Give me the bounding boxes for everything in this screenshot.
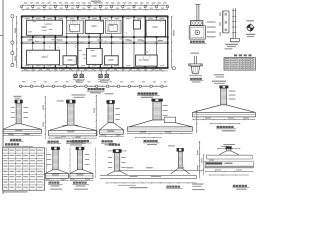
- pier footing at x=70.8: [49, 125, 68, 130]
- detail J-2 top notes: [72, 94, 86, 95]
- detail D4 caption: [246, 34, 255, 35]
- detail G dims below: [205, 170, 253, 172]
- plan column grid verticals: [21, 16, 23, 69]
- detail J-1 title: [10, 139, 13, 141]
- detail K-3 title: [109, 144, 112, 146]
- plan wall band dimension smudges: [25, 18, 30, 19]
- plan title text 1: [88, 88, 91, 90]
- detail G dim line at cap: [217, 148, 240, 150]
- strip footing dim line: [106, 182, 197, 184]
- detail J-4 right vertical dim: [196, 110, 198, 133]
- detail D4 survey symbol circle: [247, 25, 253, 31]
- detail J-5 pier shaft: [221, 88, 227, 105]
- pile cap mini-detail cluster 1: [74, 74, 77, 77]
- plan rooms top row: [27, 20, 63, 35]
- pier dim below x=110.7: [99, 135, 123, 137]
- detail J-4 title: [144, 140, 147, 142]
- plan left axis bubbles and line: [11, 16, 13, 66]
- plan top dimension line 1: [22, 4, 168, 6]
- detail J-1 top notes: [13, 96, 21, 97]
- pier shaft at x=110.7: [108, 104, 114, 123]
- detail K-3 cap dim line: [109, 150, 127, 152]
- detail D3 title: [190, 78, 193, 80]
- detail J-1 side ticks: [23, 107, 28, 108]
- detail K-4 right vertical dim: [199, 141, 201, 178]
- detail K-2 title: [72, 140, 75, 142]
- detail D1 leader notes: [207, 22, 216, 23]
- pier cap at x=70.8: [66, 100, 75, 104]
- detail D3 pile top text: [191, 53, 200, 54]
- detail G left vertical dim: [203, 155, 205, 176]
- foundation beam pile circles: [20, 85, 22, 87]
- foundation table grid: [3, 148, 45, 190]
- detail D1 crossbeam hatched: [191, 21, 203, 26]
- note under table: [4, 191, 28, 192]
- detail J-4 top notes: [142, 95, 154, 96]
- pier footing at x=55.5: [45, 170, 52, 174]
- plan right dimension line: [171, 16, 173, 68]
- long strip footing section lines: [118, 170, 204, 172]
- detail J-5 footing slopes: [193, 105, 221, 113]
- pier cap at x=18.7: [15, 100, 23, 104]
- detail J-4 pier shaft: [153, 102, 161, 120]
- detail D2 base plate: [230, 38, 239, 41]
- plan sheet top-center label: [91, 1, 101, 2]
- detail G footing slab: [205, 165, 253, 167]
- detail D2 dim ticks: [220, 12, 221, 16]
- foundation beam axis numbers: [22, 81, 25, 82]
- foundation table title: [5, 143, 8, 145]
- pier dim below x=70.8: [49, 137, 97, 139]
- plan right axis bubble: [172, 67, 175, 70]
- plan columns (black squares): [21, 16, 23, 18]
- strip footing labels: [126, 167, 133, 168]
- pier cap at x=80.0: [76, 147, 85, 150]
- detail K-3 pier: [113, 149, 122, 153]
- detail K-2 caption: [73, 182, 75, 184]
- detail J-1/J-2 vertical dim: [44, 96, 46, 139]
- detail D3 cross beam: [189, 64, 203, 66]
- plan bottom dimension line: [21, 70, 167, 72]
- pier shaft at x=80.0: [77, 150, 82, 170]
- detail G pier flare: [219, 151, 226, 155]
- pier shaft at x=18.7: [16, 103, 21, 124]
- plan top wall thick line: [21, 16, 167, 18]
- plan room annotation smudges: [41, 26, 46, 27]
- pier footing at x=18.7: [3, 124, 16, 130]
- sheet left border: [2, 0, 4, 194]
- detail J-2 / K-2 title: [67, 140, 70, 142]
- pier dim below x=18.7: [3, 135, 41, 137]
- detail G pier shaft: [226, 149, 231, 151]
- pier dim below x=55.5: [45, 180, 68, 182]
- detail D2 caption: [225, 44, 238, 45]
- plan top dimension numbers: [24, 2, 27, 3]
- detail J-3 title: [102, 140, 105, 142]
- detail J-4 shaft side notes: [163, 105, 168, 106]
- pier cap at x=55.5: [51, 147, 60, 150]
- detail D3 dim: [190, 75, 202, 77]
- pile schedule table cell text: [225, 58, 230, 59]
- detail J-5 dimension line: [193, 119, 256, 121]
- detail J-3 top notes: [105, 93, 114, 94]
- detail J-4 dims: [127, 133, 192, 135]
- detail J-4 right step: [164, 117, 175, 123]
- pier footing at x=80.0: [70, 170, 77, 174]
- detail J-2/J-3 vertical dim: [95, 95, 97, 136]
- detail D2 column box: [223, 11, 229, 33]
- detail D1 anchor post: [196, 5, 198, 21]
- detail J-5 shaft side notes: [229, 91, 236, 92]
- plan left dimension line: [16, 16, 18, 68]
- detail D2 tall bolt post: [232, 8, 234, 38]
- detail G title: [233, 185, 236, 187]
- detail J-4 footing: [129, 120, 153, 127]
- pier shaft at x=55.5: [53, 150, 58, 170]
- pile schedule table grid: [224, 58, 255, 71]
- detail J-5 title: [217, 126, 220, 128]
- detail K-4 top notes: [168, 145, 175, 146]
- detail J-4 pier cap: [152, 99, 163, 102]
- detail K-1 title: [48, 141, 51, 143]
- plan top axis bubbles: [20, 5, 22, 7]
- detail J-5 pier cap: [219, 86, 228, 89]
- detail K-1 caption: [49, 182, 51, 184]
- detail J-2 footing ledge: [62, 124, 78, 126]
- detail D1 base plate plan: [189, 26, 205, 39]
- plan corridor lines: [21, 35, 167, 37]
- detail J-5 pier top notes: [214, 74, 225, 75]
- pier shaft at x=70.8: [68, 103, 74, 125]
- detail D3 footing: [191, 66, 200, 74]
- detail D1 title: [190, 41, 193, 43]
- bottom band vertical dim lines: [45, 148, 47, 179]
- detail K-4 pier: [177, 148, 184, 151]
- plan bottom wall thick line: [21, 67, 167, 69]
- plan title text 2: [138, 92, 141, 94]
- pier cap at x=110.7: [107, 100, 115, 104]
- detail J-5 footing slab: [193, 112, 256, 117]
- foundation table cell text: [3, 150, 7, 151]
- pier dim below x=80.0: [70, 180, 93, 182]
- foundation beam axis line: [19, 85, 168, 87]
- pier footing at x=110.7: [99, 123, 108, 130]
- detail G left notes: [192, 184, 204, 185]
- plan outer wall rectangle: [21, 16, 167, 69]
- plan interior annotation texture: [68, 25, 70, 27]
- label right of K-4: [209, 160, 214, 161]
- plan rooms bottom row: [27, 50, 60, 65]
- plan fixture zones with vertical hatching: [66, 20, 83, 33]
- plan top dimension line 2: [22, 9, 168, 11]
- detail G pier cap: [226, 146, 232, 148]
- pile cap mini-detail cluster 2: [99, 74, 102, 77]
- detail D3 pile post: [194, 56, 196, 64]
- detail G pier top notes: [223, 144, 235, 145]
- strip footing captions: [130, 187, 148, 188]
- pile schedule table title: [234, 54, 237, 56]
- detail G footing number bar: [206, 162, 223, 164]
- detail G footing top line: [206, 154, 252, 156]
